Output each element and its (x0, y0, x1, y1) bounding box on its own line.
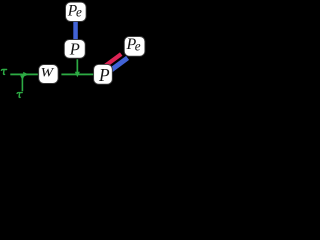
svg-text:e: e (135, 39, 141, 54)
svg-text:W: W (41, 64, 55, 79)
svg-text:e: e (76, 5, 82, 20)
svg-text:P: P (69, 39, 80, 58)
svg-text:P: P (98, 65, 110, 85)
